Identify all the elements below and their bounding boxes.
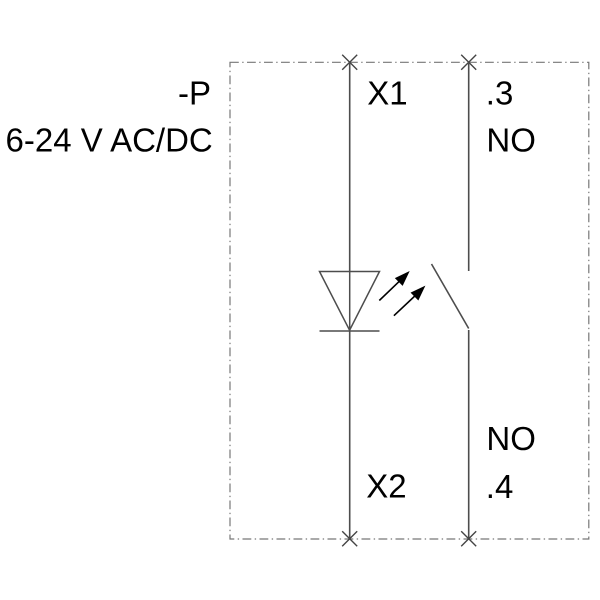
wire: .3 terminal down to contact [468, 62, 470, 271]
LED cathode bar [320, 330, 380, 332]
terminal X2 (boundary cross, lamp branch bottom) [342, 531, 357, 546]
terminal .4 (boundary cross, contact branch bottom) [461, 531, 476, 546]
LED light-emission arrow 1 [379, 271, 409, 301]
wire: X1 terminal down to LED anode [349, 62, 351, 271]
svg-text:X2: X2 [366, 468, 406, 505]
LED light-emission arrow 2 [394, 286, 426, 316]
wire: LED cathode down to X2 terminal [349, 331, 351, 539]
NO contact S1 (normally-open switch blade) [432, 264, 469, 329]
LED lamp E1 (indicator light symbol) [320, 272, 380, 332]
svg-text:.3: .3 [486, 74, 514, 111]
LED triangle (anode) [320, 272, 380, 331]
enclosure boundary (dash-dot frame of device -P) [230, 62, 589, 539]
svg-text:NO: NO [486, 122, 536, 159]
svg-text:6-24 V AC/DC: 6-24 V AC/DC [6, 121, 213, 158]
wire: contact down to .4 terminal [468, 330, 470, 539]
wire through triangle [349, 272, 351, 332]
svg-text:-P: -P [178, 74, 211, 111]
terminal X1 (boundary cross, lamp branch top) [342, 55, 357, 70]
svg-text:X1: X1 [367, 74, 407, 111]
svg-text:.4: .4 [486, 468, 514, 505]
terminal .3 (boundary cross, contact branch top) [461, 55, 476, 70]
svg-text:NO: NO [486, 420, 536, 457]
